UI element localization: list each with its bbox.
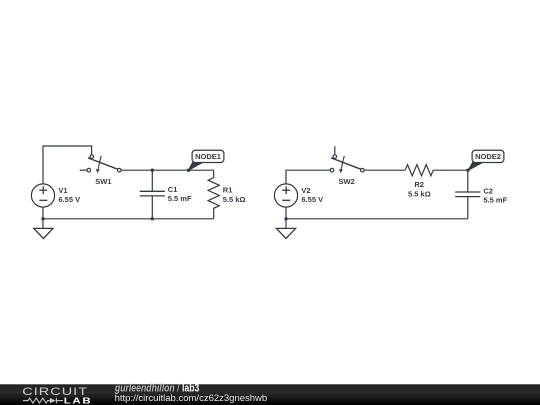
voltage source V2 (274, 184, 297, 207)
wire bottom rail left circuit (43, 218, 214, 220)
CircuitLab logo resistor-diode glyph (23, 398, 63, 404)
svg-text:V2: V2 (301, 186, 310, 195)
label R2 5.5 kOhm (408, 180, 431, 199)
resistor R1 (208, 170, 219, 219)
resistor R2 (405, 165, 433, 176)
svg-text:5.5 kΩ: 5.5 kΩ (408, 190, 431, 199)
label C2 5.5 mF (483, 187, 507, 205)
svg-text:5.5 kΩ: 5.5 kΩ (223, 195, 246, 204)
svg-text:http://circuitlab.com/cz62z3gn: http://circuitlab.com/cz62z3gneshwb (115, 393, 268, 404)
svg-text:C1: C1 (168, 185, 178, 194)
switch SW1 (87, 155, 121, 173)
svg-text:5.5 mF: 5.5 mF (168, 194, 192, 203)
svg-text:NODE2: NODE2 (475, 152, 501, 161)
label V1 6.55 V (58, 186, 80, 204)
node NODE2 flag (468, 150, 504, 170)
label R1 5.5 kOhm (223, 186, 246, 204)
svg-text:R2: R2 (414, 180, 424, 189)
capacitor C2 (455, 192, 480, 197)
wire C1 bottom lead (151, 196, 153, 219)
svg-text:LAB: LAB (64, 397, 93, 405)
ground left (34, 219, 53, 239)
wire C1 top lead (151, 170, 153, 191)
svg-text:SW1: SW1 (95, 177, 111, 186)
voltage source V1 (31, 184, 54, 207)
svg-text:C2: C2 (483, 187, 493, 196)
svg-text:6.55 V: 6.55 V (58, 195, 80, 204)
label C1 5.5 mF (168, 185, 192, 203)
junction at V2 bottom (284, 217, 287, 220)
svg-text:5.5 mF: 5.5 mF (483, 195, 507, 204)
wire C2 bottom lead (467, 197, 469, 219)
node junction at C1 top (151, 169, 154, 172)
wire C2 top lead (467, 170, 469, 192)
svg-text:SW2: SW2 (338, 177, 354, 186)
svg-text:6.55 V: 6.55 V (301, 195, 323, 204)
wire bottom rail right circuit (286, 218, 468, 220)
svg-text:CIRCUIT: CIRCUIT (22, 384, 88, 397)
capacitor C1 (140, 191, 165, 196)
junction at NODE1 (187, 169, 190, 172)
wire SW2 to R2 (364, 169, 405, 171)
junction at C1 bottom (151, 217, 154, 220)
wire V1 top to SW1 throw (43, 146, 92, 184)
junction at NODE2 (466, 169, 469, 172)
wire SW1 open-throw stub (80, 169, 87, 171)
wire V2 top to SW2 (286, 170, 330, 184)
svg-text:V1: V1 (58, 186, 67, 195)
wire SW1 to top rail (121, 169, 214, 171)
ground right (276, 219, 295, 239)
node NODE1 flag (188, 150, 224, 170)
wire R2 to C2 corner (433, 169, 468, 171)
wire V2 bottom lead (285, 207, 287, 219)
junction at V1 bottom (41, 217, 44, 220)
wire V1 bottom lead (42, 207, 44, 219)
wire SW2 open-throw stub (334, 146, 336, 155)
svg-text:NODE1: NODE1 (195, 152, 221, 161)
label V2 6.55 V (301, 186, 323, 204)
svg-text:R1: R1 (223, 186, 233, 195)
switch SW2 (330, 155, 364, 173)
